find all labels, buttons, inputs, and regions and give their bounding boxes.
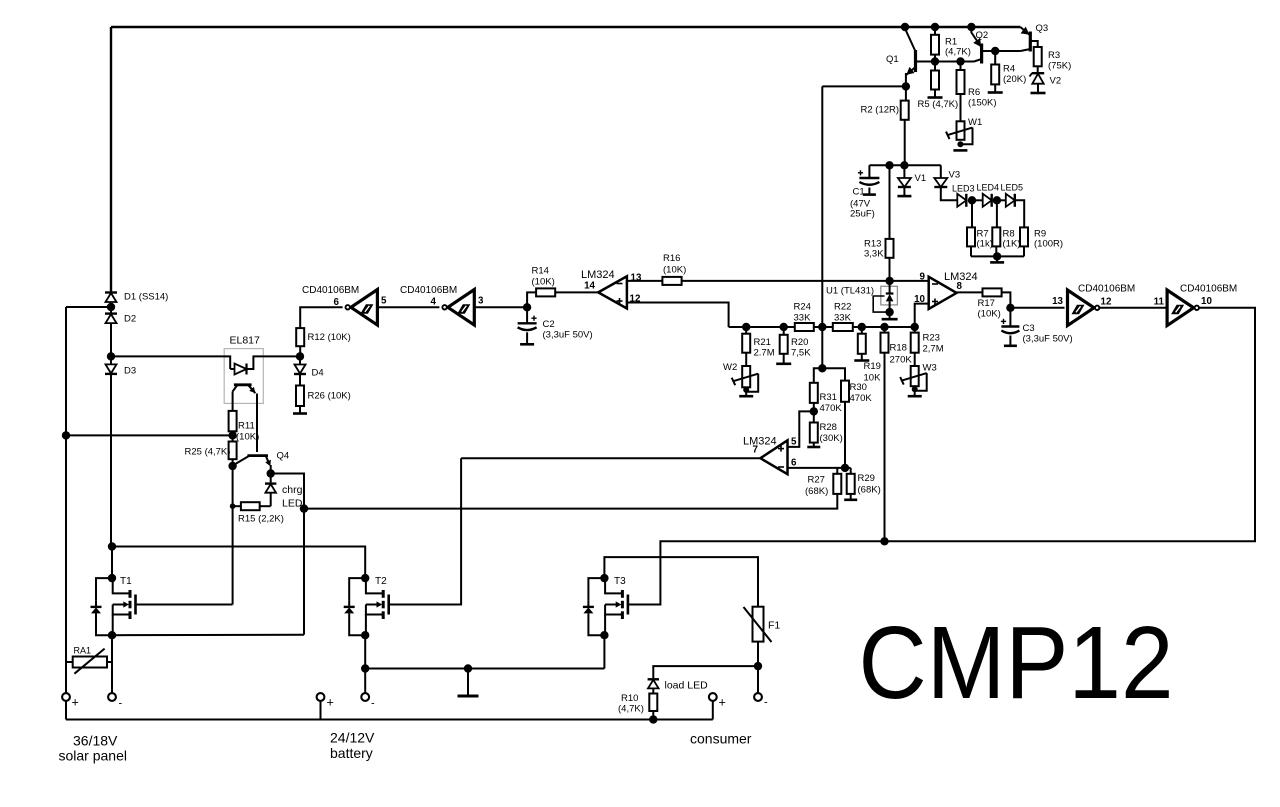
wire bottom rail xyxy=(66,719,713,721)
svg-text:(68K): (68K) xyxy=(858,485,881,496)
node W2 wiper xyxy=(743,387,749,393)
wire inverter12 to inverter11 xyxy=(1098,307,1167,309)
svg-text:chrg: chrg xyxy=(282,484,303,496)
svg-text:R21: R21 xyxy=(754,337,771,348)
ground C2 xyxy=(520,343,534,346)
resistor R16 xyxy=(662,277,681,285)
wire pin5 xyxy=(788,411,814,447)
svg-text:R22: R22 xyxy=(834,302,851,313)
svg-text:W1: W1 xyxy=(968,117,982,128)
svg-text:W3: W3 xyxy=(923,363,937,374)
node R2 bottom xyxy=(900,161,908,169)
svg-text:4: 4 xyxy=(431,297,437,308)
wire Q2 base to Q3 collector xyxy=(995,50,1020,52)
node rail center xyxy=(818,323,826,331)
svg-text:(10K): (10K) xyxy=(978,309,1001,320)
wire split to R30 xyxy=(822,368,845,380)
svg-text:6: 6 xyxy=(791,458,797,469)
node F1 load tap xyxy=(754,662,762,670)
svg-text:T1: T1 xyxy=(120,576,132,587)
resistor R27 xyxy=(836,468,838,474)
capacitor C1 xyxy=(868,165,870,178)
wire D1 node to left rail xyxy=(66,306,111,308)
optocoupler phototransistor xyxy=(234,383,252,386)
wire inverter6 input xyxy=(300,307,342,328)
svg-text:LM324: LM324 xyxy=(581,269,615,281)
wire rail to R31 R30 xyxy=(821,327,823,368)
svg-text:D2: D2 xyxy=(124,314,136,325)
led LED4 xyxy=(983,194,992,207)
node R13 bottom on pin9 wire xyxy=(885,277,893,285)
ground R26 xyxy=(293,412,307,415)
wire Q1 emitter to left rail xyxy=(822,85,906,87)
optocoupler LED xyxy=(235,364,247,375)
led load LED xyxy=(648,678,659,680)
resistor R3 xyxy=(1034,47,1042,66)
node W1 wiper xyxy=(957,141,963,147)
svg-text:Q2: Q2 xyxy=(976,30,989,41)
node rail R19 xyxy=(858,323,866,331)
svg-text:C2: C2 xyxy=(543,319,555,330)
svg-text:7: 7 xyxy=(753,445,759,456)
ground V1 xyxy=(897,195,911,198)
node T1 source xyxy=(108,631,116,639)
node LED3-LED4 xyxy=(968,196,976,204)
wire solar plus to bottom rail xyxy=(65,701,67,720)
wire pin6 xyxy=(788,467,851,469)
mosfet T1 xyxy=(111,577,114,579)
svg-text:36/18V: 36/18V xyxy=(73,733,118,749)
resistor R10 xyxy=(649,694,657,712)
node D2-D3-opto xyxy=(107,352,115,360)
svg-text:(100R): (100R) xyxy=(1034,239,1063,250)
resistor R15 xyxy=(241,502,260,510)
wire pin12 xyxy=(627,303,729,328)
op-amp LM324 (9,10,8) xyxy=(929,277,957,309)
svg-text:33K: 33K xyxy=(794,313,812,324)
resistor R7 xyxy=(971,200,973,227)
svg-text:470K: 470K xyxy=(820,403,843,414)
wire R7-R8-R9 bottoms xyxy=(971,255,1024,257)
resistor R11 xyxy=(229,411,237,431)
node R30 bottom xyxy=(841,464,849,472)
ground W2 xyxy=(745,390,747,396)
svg-text:(30K): (30K) xyxy=(820,433,843,444)
node W3 wiper xyxy=(912,386,918,392)
wire C3 node to inverter13 xyxy=(1010,307,1064,309)
node rail R23 xyxy=(911,323,919,331)
wire battery minus rail xyxy=(365,668,604,670)
resistor R21 xyxy=(745,327,747,334)
wire pin7 output xyxy=(461,457,760,459)
resistor R9 xyxy=(1020,227,1028,246)
led LED3 xyxy=(957,194,966,207)
fuse F1 xyxy=(753,607,764,642)
svg-text:R11: R11 xyxy=(238,421,255,432)
node rail R18 xyxy=(880,323,888,331)
wire LED3 to LED4 xyxy=(972,199,983,201)
svg-text:R3: R3 xyxy=(1048,50,1060,61)
node R31-R30 split xyxy=(818,364,826,372)
svg-text:(20K): (20K) xyxy=(1003,74,1026,85)
svg-text:R27: R27 xyxy=(808,475,825,486)
wire T3 source to battery rail xyxy=(603,635,605,668)
svg-text:V1: V1 xyxy=(915,173,927,184)
resistor R30 xyxy=(841,381,849,402)
ic U1 TL431 diode xyxy=(889,281,891,294)
wire left rail to R11 bottom xyxy=(66,434,233,436)
resistor R20 xyxy=(783,327,785,335)
wire inverter3 to C2 node xyxy=(474,306,527,308)
node left rail R11 tap xyxy=(62,431,70,439)
svg-text:7,5K: 7,5K xyxy=(791,348,811,359)
svg-text:9: 9 xyxy=(920,272,926,283)
inverter CD40106BM (4-3) xyxy=(448,290,475,326)
resistor R25 xyxy=(232,435,234,441)
wire left rail down xyxy=(65,307,67,694)
capacitor C2 xyxy=(526,307,528,323)
wire rail to T2 drain xyxy=(112,547,365,579)
node R1 top on rail xyxy=(931,23,939,31)
resistor R2 xyxy=(905,86,907,100)
svg-text:battery: battery xyxy=(330,745,373,761)
resistor R19 xyxy=(861,327,863,334)
svg-text:R12 (10K): R12 (10K) xyxy=(308,332,351,343)
ground R20 xyxy=(776,362,791,365)
diode D1 (SS14) xyxy=(105,291,117,293)
svg-text:24/12V: 24/12V xyxy=(330,730,375,746)
resistor R29 xyxy=(850,468,852,474)
wire pin10 output loop xyxy=(628,308,1255,605)
wire battery plus to rail xyxy=(320,701,322,720)
node T3 source xyxy=(600,631,608,639)
terminal solar plus xyxy=(62,693,70,701)
wire Q4 emitter to right vertical xyxy=(271,474,304,635)
svg-text:D3: D3 xyxy=(124,366,136,377)
wire F1 to consumer minus xyxy=(757,642,759,694)
node T1 drain xyxy=(108,574,116,582)
node T2 source rail xyxy=(361,664,369,672)
svg-text:3: 3 xyxy=(478,296,484,307)
wire C1-V1-V3 node xyxy=(869,164,940,166)
svg-text:C1: C1 xyxy=(853,187,865,198)
ground R28 xyxy=(807,446,820,449)
svg-text:LED5: LED5 xyxy=(1001,183,1024,193)
svg-text:R4: R4 xyxy=(1003,64,1015,75)
svg-text:-: - xyxy=(119,698,123,710)
svg-text:T3: T3 xyxy=(614,576,626,587)
wire T3 gate xyxy=(628,604,661,606)
node Q4 emitter xyxy=(267,469,275,477)
capacitor C3 xyxy=(1009,308,1011,327)
wire pin10 xyxy=(915,304,929,327)
diode D3 xyxy=(110,356,112,364)
svg-text:CD40106BM: CD40106BM xyxy=(1180,284,1237,295)
node R10 bottom rail xyxy=(649,715,657,723)
node LED4-LED5 xyxy=(993,196,1001,204)
ground R4 xyxy=(988,91,1003,94)
resistor R31 xyxy=(810,383,818,403)
svg-text:(3,3uF 50V): (3,3uF 50V) xyxy=(1023,334,1073,345)
ic U1 TL431 box xyxy=(881,286,898,305)
svg-text:load LED: load LED xyxy=(665,680,709,692)
mosfet T2 xyxy=(364,577,367,579)
svg-text:(75K): (75K) xyxy=(1048,61,1071,72)
trimmer W3 xyxy=(911,366,919,386)
wire Q1 emitter left vertical xyxy=(821,86,823,327)
node R13 top xyxy=(885,161,893,169)
terminal battery minus xyxy=(361,693,369,701)
node R1-R5-Q1 base xyxy=(931,57,939,65)
wire T2 source down xyxy=(364,635,366,693)
svg-text:470K: 470K xyxy=(850,393,873,404)
svg-text:33K: 33K xyxy=(834,313,852,324)
ground R19 xyxy=(854,359,869,362)
wire C2 node to R14 xyxy=(527,292,536,307)
svg-text:EL817: EL817 xyxy=(230,335,261,347)
node C3 xyxy=(1006,304,1014,312)
wire load LED branch xyxy=(653,666,758,679)
node R15 left tap xyxy=(230,503,236,509)
wire R25 node down to T1 gate xyxy=(232,466,234,605)
svg-text:-: - xyxy=(764,697,768,709)
svg-text:R18: R18 xyxy=(890,343,907,354)
wire R14 to opamp1 out xyxy=(555,291,598,293)
node rail R20 xyxy=(780,323,788,331)
svg-text:R17: R17 xyxy=(978,298,995,309)
node T2 source xyxy=(361,631,369,639)
led LED5 xyxy=(1006,194,1015,207)
svg-text:R15 (2,2K): R15 (2,2K) xyxy=(238,514,284,525)
svg-text:T2: T2 xyxy=(375,576,387,587)
wire T3 drain to F1 xyxy=(604,557,758,607)
svg-text:5: 5 xyxy=(381,296,387,307)
wire solar minus lead xyxy=(111,662,113,694)
node C2 xyxy=(523,303,531,311)
svg-text:25uF): 25uF) xyxy=(850,209,875,220)
svg-text:+: + xyxy=(72,696,79,710)
svg-text:Q4: Q4 xyxy=(277,451,290,462)
svg-text:CD40106BM: CD40106BM xyxy=(1078,284,1135,295)
svg-text:R16: R16 xyxy=(663,253,680,264)
diode V1 xyxy=(903,165,905,178)
wire U1 ref xyxy=(873,296,889,312)
transistor Q4 xyxy=(247,454,268,457)
svg-text:R29: R29 xyxy=(858,473,875,484)
node R18 bottom on T3 gate wire xyxy=(880,537,888,545)
wire pin13 to R16 xyxy=(627,280,663,282)
ground C1 xyxy=(863,193,876,196)
wire mid rail xyxy=(729,326,915,328)
resistor R13 xyxy=(889,165,891,239)
svg-text:5: 5 xyxy=(791,437,797,448)
svg-text:3,3K: 3,3K xyxy=(864,249,884,260)
wire pin13-R16-pin9 line xyxy=(682,280,929,282)
wire R17 to C3 node xyxy=(1002,292,1011,307)
svg-text:(150K): (150K) xyxy=(968,98,997,109)
svg-text:(10K): (10K) xyxy=(532,277,555,288)
node R12-D4-opto xyxy=(296,352,304,360)
inverter CD40106BM (13-12) xyxy=(1068,290,1095,326)
svg-text:2.7M: 2.7M xyxy=(754,348,775,359)
op-amp LM324 (13,12,14) xyxy=(598,276,627,308)
terminal solar minus xyxy=(108,693,116,701)
svg-text:R5 (4,7K): R5 (4,7K) xyxy=(918,99,959,110)
svg-text:R20: R20 xyxy=(791,337,808,348)
wire RA1 left xyxy=(66,661,73,663)
svg-text:(10K): (10K) xyxy=(236,432,259,443)
svg-text:D4: D4 xyxy=(312,368,324,379)
svg-text:10: 10 xyxy=(1201,296,1212,307)
node R11-R25 xyxy=(228,431,236,439)
node R31-R28-pin5 xyxy=(810,407,818,415)
ground LED resistors xyxy=(996,256,998,262)
resistor R24 xyxy=(795,323,814,331)
svg-text:(68K): (68K) xyxy=(805,486,828,497)
node R6 top xyxy=(956,57,964,65)
svg-text:LM324: LM324 xyxy=(743,436,777,448)
svg-text:(3,3uF 50V): (3,3uF 50V) xyxy=(543,330,593,341)
svg-text:270K: 270K xyxy=(890,355,913,366)
wire split to R31 xyxy=(814,368,823,383)
svg-text:8: 8 xyxy=(957,281,963,292)
ground R29 xyxy=(844,498,857,501)
node Q1 emitter xyxy=(902,82,910,90)
node battery gnd tap xyxy=(464,664,472,672)
svg-text:(4,7K): (4,7K) xyxy=(618,704,644,715)
wire T1 drain rail node xyxy=(108,542,116,550)
ground C3 xyxy=(1004,344,1017,347)
svg-text:(4,7K): (4,7K) xyxy=(945,47,971,58)
transistor Q1 xyxy=(914,50,917,72)
inverter CD40106BM (11-10) xyxy=(1167,290,1194,326)
svg-text:11: 11 xyxy=(1154,297,1165,308)
resistor R12 xyxy=(296,328,304,346)
svg-text:(10K): (10K) xyxy=(663,265,686,276)
resistor R26 xyxy=(296,386,304,407)
svg-text:R14: R14 xyxy=(532,266,549,277)
svg-text:U1 (TL431): U1 (TL431) xyxy=(826,286,874,297)
node LED resistors gnd xyxy=(993,252,1001,260)
zener V2 xyxy=(1032,72,1044,74)
svg-text:V3: V3 xyxy=(949,170,961,181)
svg-text:Q1: Q1 xyxy=(886,54,899,65)
svg-text:R30: R30 xyxy=(850,382,867,393)
terminal consumer plus xyxy=(709,693,717,701)
diode D4 xyxy=(299,356,301,364)
svg-text:CD40106BM: CD40106BM xyxy=(302,285,359,296)
svg-text:R26 (10K): R26 (10K) xyxy=(308,391,351,402)
wire LED4 to LED5 xyxy=(997,199,1006,201)
wire T1 source to chrg vertical xyxy=(112,634,304,636)
wire RA1 right xyxy=(107,661,112,663)
wire LED5 to R9 xyxy=(1015,200,1024,227)
trimmer W2 xyxy=(742,366,750,387)
node D1-D2 xyxy=(107,303,115,311)
svg-text:(1k): (1k) xyxy=(977,239,993,250)
svg-text:V2: V2 xyxy=(1050,76,1062,87)
wire T1 source down xyxy=(111,635,113,662)
wire top rail xyxy=(111,26,1020,28)
resistor R5 xyxy=(934,62,936,71)
svg-text:solar panel: solar panel xyxy=(59,748,128,764)
wire T1 gate xyxy=(136,604,233,606)
node R25 bottom Q4 base xyxy=(228,462,236,470)
svg-text:F1: F1 xyxy=(768,620,780,632)
svg-text:2,7M: 2,7M xyxy=(923,344,944,355)
terminal consumer minus xyxy=(754,693,762,701)
svg-text:D1 (SS14): D1 (SS14) xyxy=(124,292,168,303)
op-amp LM324 (5,6,7) xyxy=(760,440,787,474)
resistor R18 xyxy=(884,327,886,333)
svg-text:14: 14 xyxy=(584,281,595,292)
node T3 drain xyxy=(600,574,608,582)
wire solar rail through T1 xyxy=(110,374,112,546)
svg-text:R31: R31 xyxy=(820,392,837,403)
node Q2 emitter on rail xyxy=(967,23,975,31)
transistor Q2 xyxy=(980,44,983,64)
wire consumer plus to rail xyxy=(712,701,714,720)
svg-text:+: + xyxy=(327,696,334,710)
svg-text:(1K): (1K) xyxy=(1003,239,1021,250)
resistor R23 xyxy=(914,327,916,333)
svg-text:R19: R19 xyxy=(864,361,881,372)
wire opto LED input xyxy=(111,356,230,369)
resistor R1 xyxy=(934,27,936,35)
wire D2 to D3 node xyxy=(110,323,112,356)
ground W1 xyxy=(953,149,967,152)
resistor R17 xyxy=(983,288,1002,296)
svg-text:R10: R10 xyxy=(621,693,638,704)
mosfet T3 xyxy=(603,577,606,579)
wire left vertical from top rail to D1 xyxy=(110,27,112,293)
svg-text:+: + xyxy=(719,696,726,710)
diode V3 xyxy=(940,165,942,178)
node T2 drain xyxy=(361,574,369,582)
wire pin8 output xyxy=(957,291,983,293)
svg-text:R25 (4,7K): R25 (4,7K) xyxy=(185,447,231,458)
ground U1 xyxy=(889,312,891,319)
svg-text:6: 6 xyxy=(334,297,340,308)
svg-text:LED3: LED3 xyxy=(952,184,975,194)
resistor R28 xyxy=(813,411,815,422)
inverter CD40106BM (6-5) xyxy=(351,290,378,326)
wire T1 drain to rail xyxy=(111,547,113,579)
node collector Q1 on rail xyxy=(901,23,909,31)
ground battery xyxy=(467,669,469,697)
ground W3 xyxy=(914,389,916,396)
diode D2 xyxy=(110,307,112,314)
svg-text:R6: R6 xyxy=(968,87,980,98)
svg-text:13: 13 xyxy=(1052,296,1063,307)
led chrg LED xyxy=(270,474,272,484)
svg-text:LED4: LED4 xyxy=(977,183,1000,193)
svg-text:Q3: Q3 xyxy=(1036,23,1049,34)
trimmer W1 xyxy=(957,121,965,140)
svg-text:LED: LED xyxy=(282,498,303,510)
svg-text:RA1: RA1 xyxy=(74,646,92,656)
resistor R6 xyxy=(960,62,962,71)
optocoupler EL817 box xyxy=(224,349,263,404)
resistor R8 xyxy=(996,200,998,227)
varistor RA1 xyxy=(73,657,107,668)
svg-text:C3: C3 xyxy=(1023,323,1035,334)
svg-text:R23: R23 xyxy=(923,333,940,344)
svg-text:R2 (12R): R2 (12R) xyxy=(861,105,900,116)
svg-text:R28: R28 xyxy=(820,422,837,433)
svg-text:12: 12 xyxy=(1101,297,1112,308)
svg-text:consumer: consumer xyxy=(690,731,752,747)
